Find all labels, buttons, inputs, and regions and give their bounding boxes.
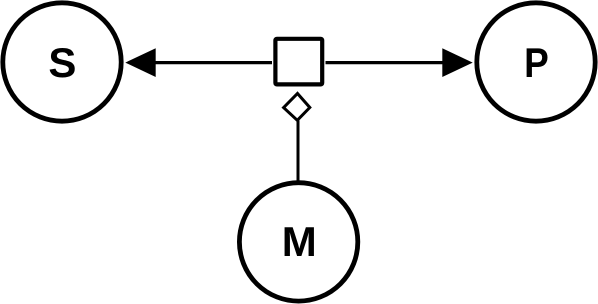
diamond bbox=[284, 94, 310, 121]
arrowhead to S bbox=[125, 48, 155, 77]
node P bbox=[477, 3, 595, 121]
square junction bbox=[275, 39, 322, 85]
wire left horizontal bbox=[155, 61, 273, 64]
wire right horizontal bbox=[326, 61, 444, 64]
svg-text:S: S bbox=[48, 39, 76, 86]
node M bbox=[239, 183, 357, 301]
svg-text:M: M bbox=[282, 218, 317, 265]
svg-text:P: P bbox=[524, 40, 549, 87]
arrowhead to P bbox=[442, 48, 472, 77]
wire vertical to M bbox=[297, 121, 300, 182]
node S bbox=[3, 3, 121, 121]
